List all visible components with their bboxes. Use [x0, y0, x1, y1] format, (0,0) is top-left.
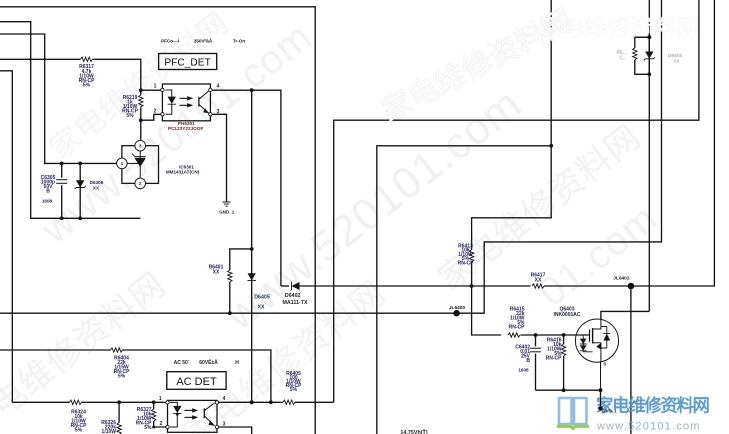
svg-text:MM1431AT(CN): MM1431AT(CN) [166, 170, 200, 175]
svg-text:XX: XX [535, 277, 542, 283]
svg-text:AC DET: AC DET [176, 376, 217, 388]
svg-text:5%: 5% [75, 428, 83, 434]
svg-text:5%: 5% [118, 374, 126, 380]
svg-text:www.520101.com: www.520101.com [596, 421, 701, 433]
svg-text:4: 4 [223, 396, 226, 402]
svg-text:INK0001AC: INK0001AC [554, 312, 581, 318]
svg-text:1: 1 [159, 396, 162, 402]
svg-text:2: 2 [160, 421, 163, 427]
svg-text:PFC_DET: PFC_DET [164, 57, 210, 68]
svg-text:S: S [603, 362, 606, 367]
svg-text:Tr-On: Tr-On [233, 39, 245, 44]
svg-text:H: H [235, 360, 239, 366]
svg-text:XX: XX [213, 269, 220, 275]
svg-text:RN-CP: RN-CP [509, 325, 525, 331]
svg-text:DVO_1: DVO_1 [602, 408, 617, 413]
svg-text:MA111-TX: MA111-TX [282, 300, 307, 306]
svg-text:3: 3 [223, 421, 226, 427]
svg-text:1: 1 [121, 161, 124, 167]
svg-text:XX: XX [93, 185, 100, 190]
svg-text:D6306: D6306 [90, 180, 104, 185]
svg-text:5%: 5% [144, 425, 152, 431]
svg-text:D6405: D6405 [254, 294, 270, 300]
svg-text:AC 50`: AC 50` [174, 360, 190, 366]
svg-text:3: 3 [217, 109, 220, 115]
svg-text:C...: C... [619, 56, 627, 62]
svg-text:1: 1 [154, 84, 157, 90]
svg-text:JL6402: JL6402 [613, 275, 630, 281]
svg-text:350VʱâÅ: 350VʱâÅ [194, 38, 213, 44]
svg-text:5%: 5% [290, 387, 298, 393]
svg-text:4: 4 [217, 84, 220, 90]
svg-text:D6403: D6403 [668, 53, 682, 59]
svg-text:60VÊ±Å: 60VÊ±Å [199, 358, 218, 366]
svg-text:PFCо—Í: PFCо—Í [161, 37, 180, 44]
svg-text:RN-CP: RN-CP [458, 261, 474, 267]
svg-text:1/10W: 1/10W [102, 429, 117, 434]
svg-text:2: 2 [154, 108, 157, 114]
svg-text:3: 3 [139, 143, 142, 149]
svg-text:1608: 1608 [518, 367, 529, 372]
svg-text:JL6400: JL6400 [449, 305, 466, 311]
svg-text:XX: XX [257, 304, 265, 310]
svg-text:5%: 5% [126, 113, 134, 119]
svg-text:PC123Y22JOOF: PC123Y22JOOF [168, 126, 204, 131]
svg-text:B: B [46, 189, 50, 195]
svg-text:RN-CP: RN-CP [546, 355, 562, 361]
svg-text:1608: 1608 [42, 199, 53, 204]
svg-text:XX: XX [673, 59, 680, 65]
svg-text:B: B [526, 358, 530, 364]
svg-text:D6402: D6402 [285, 293, 301, 299]
svg-text:GND_1: GND_1 [219, 210, 235, 215]
svg-text:2: 2 [139, 181, 142, 187]
svg-text:5%: 5% [83, 83, 91, 89]
